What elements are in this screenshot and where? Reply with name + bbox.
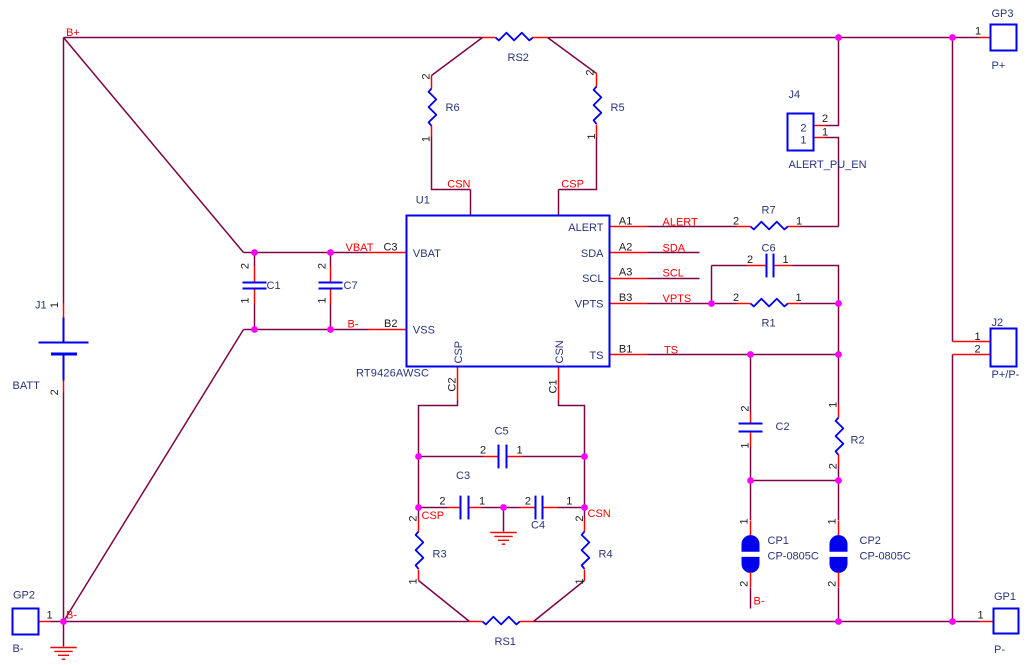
wire B- junction to ground xyxy=(63,622,65,647)
junction VBAT / C7 xyxy=(327,249,334,256)
svg-text:B2: B2 xyxy=(384,318,397,330)
svg-text:C1: C1 xyxy=(548,379,560,393)
wire CP1 bottom stub to B- xyxy=(750,588,752,609)
junction bottom rail / P- vertical xyxy=(949,618,956,625)
junction TS / R2 xyxy=(835,351,842,358)
svg-text:VBAT: VBAT xyxy=(346,242,374,254)
junction top rail / J4 branch xyxy=(835,34,842,41)
svg-text:CP-0805C: CP-0805C xyxy=(768,551,819,563)
wire U1 CSN pin to right branch xyxy=(559,401,585,508)
svg-text:R1: R1 xyxy=(762,317,776,329)
svg-text:CSN: CSN xyxy=(554,340,566,363)
svg-text:TS: TS xyxy=(589,350,603,362)
svg-text:2: 2 xyxy=(974,344,980,356)
svg-text:R7: R7 xyxy=(762,204,776,216)
svg-text:C4: C4 xyxy=(531,519,545,531)
junction VSS / C7 xyxy=(327,326,334,333)
svg-text:1: 1 xyxy=(317,297,329,303)
wire VPTS net to junction xyxy=(648,303,737,305)
pin lead U1 SCL (A3) xyxy=(610,278,648,280)
junction CSN / C4 / R4 xyxy=(581,504,588,511)
capacitor C4 xyxy=(521,496,558,520)
svg-text:C3: C3 xyxy=(456,470,470,482)
pin lead GP3 pin1 xyxy=(979,37,991,39)
wire U1 CSN top stub xyxy=(470,190,472,216)
pad GP3 body xyxy=(991,25,1017,51)
wire J4 pin1 down to R7 xyxy=(826,138,839,227)
svg-text:1: 1 xyxy=(566,496,572,508)
svg-text:CSP: CSP xyxy=(422,510,445,522)
connector J2 body xyxy=(991,329,1017,367)
wire B+ top rail left segment xyxy=(64,37,483,39)
wire R6 to U1 CSN pin xyxy=(432,137,471,190)
svg-text:A2: A2 xyxy=(619,242,632,254)
svg-text:CSN: CSN xyxy=(588,508,611,520)
wire R5 to U1 CSP pin xyxy=(559,138,597,190)
svg-text:1: 1 xyxy=(800,134,806,146)
wire C7 top stub xyxy=(330,253,332,267)
junction VBAT / C1 xyxy=(251,249,258,256)
svg-text:2: 2 xyxy=(827,581,839,587)
wire C2 top lead xyxy=(750,355,752,413)
svg-text:CSN: CSN xyxy=(447,178,470,190)
svg-text:B+: B+ xyxy=(66,27,80,39)
svg-text:2: 2 xyxy=(739,405,751,411)
svg-text:1: 1 xyxy=(977,609,983,621)
svg-text:CP2: CP2 xyxy=(860,535,881,547)
pin lead U1 CSP bottom (C2) xyxy=(457,367,459,401)
capacitor CP2 (polarized) xyxy=(830,521,848,587)
svg-text:2: 2 xyxy=(574,515,586,521)
wire diagonal B+ to VBAT node xyxy=(64,38,244,253)
wire B+ rail top-left vertical xyxy=(63,38,65,304)
resistor R3 xyxy=(416,519,424,581)
svg-text:B-: B- xyxy=(754,596,765,608)
svg-text:P-: P- xyxy=(994,644,1005,656)
wire CP1 top lead xyxy=(750,481,752,521)
wire diagonal R4 to RS1 xyxy=(534,581,585,622)
svg-text:1: 1 xyxy=(796,215,802,227)
svg-text:RS1: RS1 xyxy=(495,636,516,648)
wire C4 right lead xyxy=(558,507,585,509)
svg-text:2: 2 xyxy=(317,263,329,269)
svg-text:SCL: SCL xyxy=(663,268,684,280)
svg-text:2: 2 xyxy=(733,292,739,304)
wire diagonal R3 to RS1 xyxy=(419,581,470,622)
svg-text:1: 1 xyxy=(574,578,586,584)
svg-text:P+: P+ xyxy=(992,60,1006,72)
svg-text:2: 2 xyxy=(480,445,486,457)
pad GP2 body xyxy=(13,609,39,635)
junction VSS / C1 xyxy=(251,326,258,333)
resistor R7 xyxy=(737,222,801,230)
svg-text:2: 2 xyxy=(439,496,445,508)
wire C1 top stub xyxy=(254,253,256,267)
svg-text:VPTS: VPTS xyxy=(663,293,692,305)
junction C3 / C4 / ground xyxy=(500,504,507,511)
svg-text:J1: J1 xyxy=(35,300,47,312)
svg-text:1: 1 xyxy=(974,331,980,343)
capacitor C2 xyxy=(739,413,763,447)
pin lead J4 pin1 xyxy=(814,137,826,139)
svg-text:C5: C5 xyxy=(495,425,509,437)
svg-text:B-: B- xyxy=(13,643,24,655)
svg-text:2: 2 xyxy=(822,113,828,125)
svg-text:ALERT_PU_EN: ALERT_PU_EN xyxy=(789,159,867,171)
resistor RS2 xyxy=(483,33,548,41)
junction R2 / CP2 xyxy=(835,477,842,484)
wire center junction to ground xyxy=(503,508,505,532)
svg-text:1: 1 xyxy=(795,292,801,304)
wire J2 pin2 vertical to P- rail xyxy=(952,355,954,622)
svg-text:GP2: GP2 xyxy=(13,590,35,602)
resistor R2 xyxy=(836,405,844,467)
pin lead J4 pin2 xyxy=(814,125,826,127)
wire C7 bottom stub xyxy=(330,304,332,330)
wire bottom rail right of RS1 xyxy=(534,621,980,623)
svg-text:CSP: CSP xyxy=(561,178,584,190)
svg-text:2: 2 xyxy=(800,122,806,134)
svg-text:1: 1 xyxy=(782,254,788,266)
svg-text:2: 2 xyxy=(420,73,432,79)
svg-text:1: 1 xyxy=(586,133,598,139)
resistor R5 xyxy=(594,74,602,138)
wire R1 junction down to TS row xyxy=(838,304,840,355)
junction CSN / C5 xyxy=(581,453,588,460)
resistor R1 xyxy=(737,299,801,307)
capacitor C1 xyxy=(243,267,267,304)
svg-text:1: 1 xyxy=(739,518,751,524)
wire diagonal B- node to bottom rail xyxy=(64,330,244,622)
pad GP1 body xyxy=(994,609,1019,634)
wire ALERT net to R7 xyxy=(648,226,737,228)
wire C1 bottom stub xyxy=(254,304,256,330)
svg-text:C2: C2 xyxy=(447,378,459,392)
wire C2 bottom lead xyxy=(750,447,752,481)
pin lead U1 VPTS (B3) xyxy=(610,303,648,305)
svg-text:B1: B1 xyxy=(619,343,632,355)
junction B- bottom-left xyxy=(60,618,67,625)
svg-text:1: 1 xyxy=(420,136,432,142)
wire J4 pin2 to top rail xyxy=(826,38,839,126)
pin lead U1 VBAT (C3) xyxy=(369,252,407,254)
wire C5 left lead xyxy=(419,456,484,458)
svg-text:1: 1 xyxy=(739,442,751,448)
wire C6 left lead xyxy=(712,265,747,267)
pin lead U1 VSS (B2) xyxy=(369,329,407,331)
wire C2/R2 bottom row xyxy=(751,480,839,482)
svg-text:2: 2 xyxy=(739,581,751,587)
svg-text:2: 2 xyxy=(49,389,61,395)
svg-text:C3: C3 xyxy=(383,241,397,253)
svg-text:1: 1 xyxy=(240,297,252,303)
svg-text:1: 1 xyxy=(827,402,839,408)
pin lead GP2 pin1 xyxy=(40,621,51,623)
junction C2 / CP1 xyxy=(747,477,754,484)
wire R3 top lead xyxy=(418,508,420,519)
svg-text:2: 2 xyxy=(525,496,531,508)
svg-text:1: 1 xyxy=(479,496,485,508)
svg-text:1: 1 xyxy=(975,25,981,37)
wire SCL net stub xyxy=(648,278,700,280)
wire diagonal RS2 to R6 xyxy=(432,38,483,76)
junction top rail / P+ vertical xyxy=(949,34,956,41)
svg-text:1: 1 xyxy=(822,126,828,138)
svg-text:BATT: BATT xyxy=(13,380,41,392)
svg-text:C1: C1 xyxy=(267,280,281,292)
svg-text:TS: TS xyxy=(664,344,678,356)
junction CSP / C5 xyxy=(415,453,422,460)
resistor R4 xyxy=(582,519,590,581)
svg-text:1: 1 xyxy=(46,610,52,622)
svg-text:A1: A1 xyxy=(619,215,632,227)
wire GP2 to B- junction xyxy=(51,621,64,623)
capacitor C5 xyxy=(484,445,523,469)
svg-text:GP1: GP1 xyxy=(994,591,1016,603)
svg-text:P+/P-: P+/P- xyxy=(992,369,1020,381)
pin lead J2 pin1 xyxy=(953,341,991,343)
svg-text:SCL: SCL xyxy=(582,273,603,285)
wire diagonal RS2 to R5 xyxy=(548,38,597,74)
svg-text:B-: B- xyxy=(66,610,77,622)
svg-text:ALERT: ALERT xyxy=(663,216,699,228)
op-amp U1 body (RT9426AWSC) xyxy=(407,216,610,367)
svg-text:C6: C6 xyxy=(762,242,776,254)
pin lead U1 CSN bottom (C1) xyxy=(558,367,560,401)
wire CP2 bottom to rail xyxy=(838,588,840,622)
pin lead battery pin2 xyxy=(63,381,65,393)
svg-text:ALERT: ALERT xyxy=(568,222,604,234)
svg-text:2: 2 xyxy=(827,463,839,469)
capacitor C6 xyxy=(747,254,793,278)
svg-text:R4: R4 xyxy=(599,548,613,560)
junction R1 / C6 right xyxy=(835,300,842,307)
junction TS / C2 xyxy=(747,351,754,358)
svg-text:1: 1 xyxy=(49,302,61,308)
wire C4 left lead xyxy=(504,507,521,509)
connector J4 body xyxy=(788,114,814,151)
svg-text:CSP: CSP xyxy=(453,341,465,364)
wire U1 CSP pin to left branch xyxy=(419,401,458,508)
svg-text:GP3: GP3 xyxy=(992,8,1014,20)
svg-text:2: 2 xyxy=(585,69,597,75)
wire U1 CSP top stub xyxy=(558,190,560,216)
svg-text:SDA: SDA xyxy=(663,243,686,255)
junction bottom rail / CP2 xyxy=(835,618,842,625)
wire VPTS junction up to C6 xyxy=(711,266,713,304)
wire P+ vertical to J2 pin1 xyxy=(952,38,954,342)
svg-text:RS2: RS2 xyxy=(508,52,529,64)
svg-text:CP1: CP1 xyxy=(768,535,789,547)
wire C3 left lead xyxy=(419,507,448,509)
svg-text:R3: R3 xyxy=(433,548,447,560)
svg-text:1: 1 xyxy=(407,578,419,584)
svg-text:RT9426AWSC: RT9426AWSC xyxy=(356,368,429,380)
ground (center, near C3/C4) xyxy=(490,533,516,545)
svg-text:R5: R5 xyxy=(611,102,625,114)
pin lead U1 ALERT (A1) xyxy=(610,226,648,228)
pin lead GP1 pin1 xyxy=(980,621,994,623)
wire C3 right to center junction xyxy=(482,507,504,509)
svg-text:J2: J2 xyxy=(992,317,1004,329)
svg-text:B3: B3 xyxy=(619,292,632,304)
svg-text:R2: R2 xyxy=(851,434,865,446)
svg-text:A3: A3 xyxy=(619,267,632,279)
capacitor C7 xyxy=(319,267,343,304)
wire C6 right to R1 right xyxy=(793,266,839,304)
wire R2 bottom lead xyxy=(838,467,840,481)
svg-text:B-: B- xyxy=(348,319,359,331)
battery J1 xyxy=(39,318,89,381)
svg-text:VPTS: VPTS xyxy=(575,299,604,311)
wire top rail right segment xyxy=(548,37,979,39)
svg-text:SDA: SDA xyxy=(581,248,604,260)
wire VSS/B- row horizontal xyxy=(244,329,369,331)
svg-text:1: 1 xyxy=(827,518,839,524)
wire VBAT row horizontal xyxy=(244,252,369,254)
wire TS net horizontal xyxy=(648,354,839,356)
svg-text:2: 2 xyxy=(240,263,252,269)
svg-text:C2: C2 xyxy=(776,421,790,433)
wire R7 to J4 branch xyxy=(801,226,839,228)
junction CSP / C3 / R3 xyxy=(415,504,422,511)
ground (bottom-left, B-) xyxy=(50,648,76,660)
junction VPTS / C6 branch xyxy=(708,300,715,307)
svg-text:VBAT: VBAT xyxy=(413,248,441,260)
capacitor CP1 (polarized) xyxy=(742,521,760,587)
wire C5 right lead xyxy=(523,456,585,458)
svg-text:2: 2 xyxy=(747,254,753,266)
svg-text:C7: C7 xyxy=(344,280,358,292)
wire R2 top lead xyxy=(838,355,840,405)
wire bottom rail left of RS1 xyxy=(64,621,469,623)
pin lead U1 TS (B1) xyxy=(610,354,648,356)
svg-text:CP-0805C: CP-0805C xyxy=(860,551,911,563)
pin lead J2 pin2 xyxy=(953,354,991,356)
svg-text:2: 2 xyxy=(407,515,419,521)
resistor R6 xyxy=(429,76,437,137)
svg-text:2: 2 xyxy=(733,215,739,227)
wire SDA net stub xyxy=(648,252,700,254)
wire CP2 top lead xyxy=(838,481,840,521)
svg-text:U1: U1 xyxy=(416,195,430,207)
svg-text:1: 1 xyxy=(516,445,522,457)
wire battery bottom to B- junction xyxy=(63,393,65,622)
wire R4 top lead xyxy=(584,508,586,519)
pin lead U1 SDA (A2) xyxy=(610,252,648,254)
resistor RS1 xyxy=(469,617,534,625)
capacitor C3 xyxy=(448,496,482,520)
wire R1 right to junction xyxy=(801,303,839,305)
pin lead battery pin1 xyxy=(63,304,65,318)
svg-text:R6: R6 xyxy=(446,102,460,114)
svg-text:VSS: VSS xyxy=(413,325,435,337)
svg-text:J4: J4 xyxy=(789,89,801,101)
